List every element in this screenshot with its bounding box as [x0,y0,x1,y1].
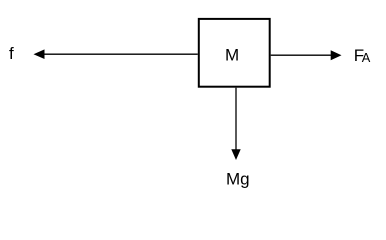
svg-text:M: M [225,46,239,65]
svg-text:Mg: Mg [226,169,250,188]
svg-text:A: A [362,50,371,65]
svg-text:f: f [9,44,14,63]
